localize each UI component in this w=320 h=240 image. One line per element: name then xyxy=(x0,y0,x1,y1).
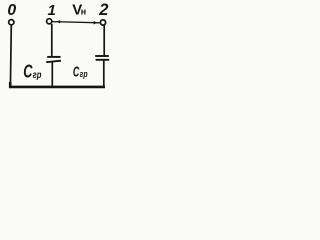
terminal 1 xyxy=(47,19,52,24)
terminal 2 xyxy=(100,20,105,25)
node label 1 xyxy=(48,2,56,19)
node label 2 xyxy=(98,1,108,19)
svg-text:гр: гр xyxy=(33,69,42,81)
svg-text:2: 2 xyxy=(98,1,108,19)
svg-text:1: 1 xyxy=(48,2,56,19)
label Vн xyxy=(72,1,86,18)
terminal 0 xyxy=(9,20,14,25)
node label 0 xyxy=(7,2,16,19)
wire (terminal 1 down to capacitor C1) xyxy=(51,24,53,57)
value label Cгр (right) xyxy=(73,64,88,81)
value label Cгр (left) xyxy=(23,61,42,81)
bottom bus wire xyxy=(10,82,105,87)
svg-text:0: 0 xyxy=(7,2,16,19)
capacitor C2 Cгр xyxy=(95,56,109,60)
wire (capacitor C1 down to bottom bus) xyxy=(51,61,53,88)
wire (capacitor C2 down to bottom bus) xyxy=(103,60,105,88)
svg-text:н: н xyxy=(81,7,86,17)
capacitor C1 Cгр xyxy=(46,57,61,62)
wire (terminal 0 down to bottom bus) xyxy=(9,25,12,88)
svg-text:гр: гр xyxy=(80,69,88,80)
wire (terminal 2 down to capacitor C2) xyxy=(103,25,105,56)
voltage arrow Vн (double-headed between terminals 1 and 2) xyxy=(52,20,99,24)
